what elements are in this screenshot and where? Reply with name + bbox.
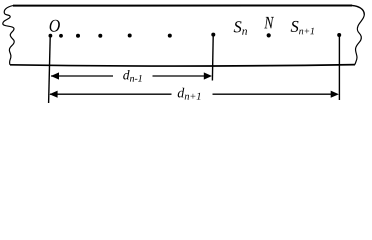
label d_n+1 [178,88,201,100]
label O (origin point) [50,20,60,32]
dimension d_n-1: right arrowhead [204,72,212,79]
extension tick line at S_n+1 mark [338,36,340,100]
top-right rounded corner of strip [352,6,364,15]
dot 9 (mark S_n+1) [337,33,341,37]
dimension d_n+1: left shaft [50,93,172,95]
dot 6 [168,34,172,38]
top edge line of scale strip [13,5,352,7]
dot 4 [98,34,102,38]
right torn-edge squiggle [355,15,364,65]
label N [264,17,274,29]
bottom edge line of scale strip [10,65,355,66]
dot 8 (mark N) [267,33,271,37]
dimension d_n+1: right arrowhead [331,91,339,98]
dot 7 (mark S_n-1) [211,33,215,37]
extension tick line at O down to dimension lines [49,37,51,103]
dot 3 [76,34,80,38]
dot 5 [128,34,132,38]
extension tick line at S_n-1 mark [211,36,214,81]
label d_n-1 [123,70,141,82]
left torn-edge squiggle [3,6,14,65]
dimension d_n+1: right shaft [213,93,333,95]
dimension d_n+1: left arrowhead [49,91,57,98]
dimension d_n-1: left arrowhead [51,72,59,79]
label S_n [234,21,247,35]
dot 1 (origin mark at O) [49,34,53,38]
label S_n+1 [291,21,314,34]
dimension d_n-1: left shaft [51,75,113,77]
dot 2 [59,34,63,38]
dimension d_n-1: right shaft [153,75,206,77]
